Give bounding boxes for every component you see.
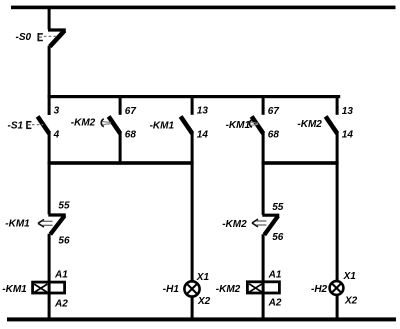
pin X2 (H1 bottom) bbox=[197, 296, 211, 307]
svg-text:56: 56 bbox=[58, 235, 70, 246]
S1 manual actuator symbol E bbox=[27, 121, 31, 129]
wire: lamp H1 to bottom rail bbox=[191, 297, 194, 319]
svg-text:-S1: -S1 bbox=[8, 121, 24, 132]
svg-text:67: 67 bbox=[268, 106, 280, 117]
svg-text:A1: A1 bbox=[268, 270, 282, 281]
contact KM1 13-14 (NO auxiliary) bbox=[181, 116, 193, 133]
power rail N (bottom supply bus) bbox=[7, 317, 396, 321]
lamp H2 (signal lamp) bbox=[330, 281, 344, 295]
svg-text:67: 67 bbox=[125, 106, 137, 117]
svg-text:3: 3 bbox=[54, 105, 60, 116]
svg-text:-KM2: -KM2 bbox=[216, 284, 241, 295]
pin 13 (KM1 aux top) bbox=[197, 105, 209, 116]
label -S0 bbox=[16, 32, 32, 43]
svg-text:A2: A2 bbox=[268, 297, 282, 308]
svg-text:-S0: -S0 bbox=[16, 32, 32, 43]
wire: S1 to bus2 and down to KM1 55-56 bbox=[48, 133, 51, 214]
label -KM2 (coil) bbox=[216, 284, 241, 295]
label -S1 bbox=[8, 121, 24, 132]
label -KM2 (aux 67-68) bbox=[71, 118, 96, 129]
contact KM2 13-14 (NO auxiliary) bbox=[326, 116, 338, 133]
contact KM2 55-56 (NC auxiliary) bbox=[262, 215, 279, 235]
svg-text:55: 55 bbox=[272, 202, 284, 213]
KM1 67-68 actuator link symbol bbox=[250, 120, 259, 127]
pin 67 (KM1 aux top) bbox=[268, 106, 280, 117]
wire: S0 to node bus1 and contact S1 top bbox=[48, 46, 51, 115]
pin 4 (S1 bottom) bbox=[53, 130, 60, 141]
label -H2 bbox=[311, 284, 328, 295]
pin X1 (H2 top) bbox=[343, 271, 357, 282]
svg-text:-KM1: -KM1 bbox=[2, 284, 27, 295]
pin A2 (KM2 coil bottom) bbox=[268, 297, 282, 308]
svg-text:14: 14 bbox=[342, 130, 354, 141]
svg-text:A1: A1 bbox=[54, 270, 68, 281]
pin A1 (KM1 coil top) bbox=[54, 270, 68, 281]
wire: lamp H2 to bottom rail bbox=[336, 296, 339, 319]
contact KM2 67-68 (NO auxiliary) bbox=[109, 116, 121, 133]
wire: KM2 13-14 through bus3 down to lamp H2 bbox=[336, 133, 339, 281]
label -KM1 (aux 13-14) bbox=[150, 121, 175, 132]
svg-text:56: 56 bbox=[272, 232, 284, 243]
svg-text:X1: X1 bbox=[343, 271, 357, 282]
svg-text:-KM2: -KM2 bbox=[222, 219, 247, 230]
lamp H1 (signal lamp) bbox=[184, 281, 199, 296]
svg-text:-KM1: -KM1 bbox=[5, 219, 30, 230]
pin 14 (KM1 aux bottom) bbox=[197, 130, 209, 141]
pin A1 (KM2 coil top) bbox=[268, 270, 282, 281]
pin 55 (KM2 NC top) bbox=[272, 202, 284, 213]
contact KM1 55-56 (NC auxiliary) bbox=[48, 215, 66, 234]
pin 56 (KM2 NC bottom) bbox=[272, 232, 284, 243]
svg-text:13: 13 bbox=[197, 105, 209, 116]
KM2 55-56 actuator link symbol bbox=[252, 219, 266, 227]
pin 68 (KM1 aux bottom) bbox=[268, 130, 280, 141]
S0 actuator dashed link bbox=[44, 35, 57, 37]
label -H1 bbox=[163, 284, 180, 295]
svg-text:68: 68 bbox=[268, 130, 280, 141]
label -KM2 (aux 13-14) bbox=[297, 119, 322, 130]
svg-text:4: 4 bbox=[53, 130, 60, 141]
pushbutton S1 (NO start contact) bbox=[38, 116, 50, 133]
label -KM1 (NC 55-56) bbox=[5, 219, 30, 230]
svg-text:14: 14 bbox=[197, 130, 209, 141]
svg-text:55: 55 bbox=[58, 201, 70, 212]
svg-text:X1: X1 bbox=[196, 272, 210, 283]
svg-text:X2: X2 bbox=[197, 296, 211, 307]
label -KM1 (coil) bbox=[2, 284, 27, 295]
pin X1 (H1 top) bbox=[196, 272, 210, 283]
wire: KM2 67-68 to bus2 bbox=[119, 133, 122, 165]
svg-text:-H2: -H2 bbox=[311, 284, 328, 295]
KM1 55-56 actuator link symbol bbox=[38, 219, 53, 227]
wire stub: bus1 to KM2 13-14 bbox=[336, 96, 339, 115]
wire: KM1 13-14 through bus2 down to lamp H1 bbox=[191, 133, 194, 281]
svg-text:-KM2: -KM2 bbox=[297, 119, 322, 130]
pin 3 (S1 top) bbox=[54, 105, 60, 116]
node bus3 (junction of KM1 67-68 and KM2 13-14) bbox=[262, 161, 339, 165]
pin 55 (KM1 NC top) bbox=[58, 201, 70, 212]
svg-text:-H1: -H1 bbox=[163, 284, 180, 295]
pin 68 (KM2 aux bottom) bbox=[125, 130, 137, 141]
pin 67 (KM2 aux top) bbox=[125, 106, 137, 117]
svg-text:68: 68 bbox=[125, 130, 137, 141]
wire: KM2 55-56 to coil KM2 and bottom rail bbox=[262, 234, 265, 319]
S0 manual actuator symbol E bbox=[38, 33, 43, 41]
pin 14 (KM2 aux bottom) bbox=[342, 130, 354, 141]
svg-text:-KM2: -KM2 bbox=[71, 118, 96, 129]
pin X2 (H2 bottom) bbox=[344, 296, 358, 307]
KM2 67-68 actuator link symbol bbox=[101, 119, 110, 127]
svg-text:13: 13 bbox=[342, 106, 354, 117]
pin 56 (KM1 NC bottom) bbox=[58, 235, 70, 246]
node bus1 (output of S0 feeding all branches) bbox=[48, 95, 341, 98]
label -KM2 (NC 55-56) bbox=[222, 219, 247, 230]
wire stub: bus1 to KM1 13-14 bbox=[191, 96, 194, 115]
svg-text:-KM1: -KM1 bbox=[226, 120, 251, 131]
contact KM1 67-68 (NO auxiliary) bbox=[252, 116, 264, 133]
pin 13 (KM2 aux top) bbox=[342, 106, 354, 117]
svg-text:A2: A2 bbox=[54, 298, 68, 309]
svg-text:X2: X2 bbox=[344, 296, 358, 307]
label -KM1 (aux 67-68) bbox=[226, 120, 251, 131]
pin A2 (KM1 coil bottom) bbox=[54, 298, 68, 309]
coil KM2 (contactor coil) bbox=[247, 282, 279, 293]
wire: top rail to S0 bbox=[48, 9, 51, 30]
node bus2 (junction of S1, KM2 67-68, KM1 13-14) bbox=[48, 161, 194, 165]
wire stub: bus1 to KM2 67-68 bbox=[119, 96, 122, 115]
pushbutton S0 (NC emergency stop contact) bbox=[48, 30, 66, 47]
wire: KM1 55-56 to coil KM1 and bottom rail bbox=[48, 234, 51, 319]
power rail L (top supply bus) bbox=[11, 6, 396, 10]
coil KM1 (contactor coil) bbox=[33, 282, 65, 293]
wire stub: bus1 to KM1 67-68 bbox=[262, 96, 265, 115]
wire: KM1 67-68 to bus3 and down to KM2 55-56 bbox=[262, 133, 265, 215]
S1 actuator dashed link bbox=[32, 124, 43, 126]
svg-text:-KM1: -KM1 bbox=[150, 121, 175, 132]
